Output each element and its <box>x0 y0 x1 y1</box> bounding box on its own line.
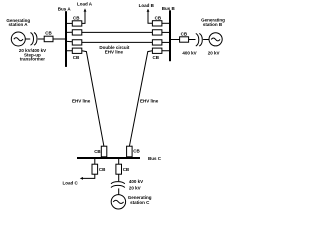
wire CB to Bus A <box>53 38 66 40</box>
svg-text:Bus A: Bus A <box>58 6 72 11</box>
svg-text:CB: CB <box>99 167 106 172</box>
svg-text:station B: station B <box>203 22 223 27</box>
wire Bus B to CB1 <box>162 22 169 24</box>
wire Bus A to CB4 <box>67 50 72 52</box>
circuit breaker CB (generator B) <box>180 37 189 42</box>
svg-text:transformer: transformer <box>20 57 46 62</box>
wire EHV circuit 1 <box>82 31 153 33</box>
svg-text:EHV line: EHV line <box>105 49 124 54</box>
wire CB to transformer T2 <box>189 39 196 41</box>
svg-text:Bus B: Bus B <box>162 6 176 11</box>
wire Bus A to CB3 <box>67 40 72 42</box>
svg-text:EHV line: EHV line <box>72 98 91 103</box>
svg-text:Load B: Load B <box>139 3 155 8</box>
generator G3 station C <box>111 195 125 209</box>
label 20 kV/400 kV step-up transformer <box>19 48 46 62</box>
svg-text:EHV line: EHV line <box>140 98 159 103</box>
svg-text:CB: CB <box>45 31 52 36</box>
svg-text:CB: CB <box>155 15 162 20</box>
wire Bus A to CB1 <box>67 22 72 24</box>
wire EHV line B-C diagonal <box>129 51 152 146</box>
wire Bus B to generator CB <box>171 39 180 41</box>
wire Bus C to CB (generator C) <box>118 159 120 164</box>
wire generator A to transformer T1 <box>25 38 30 40</box>
wire CB to transformer T3 <box>118 174 120 181</box>
wire Bus B to CB2 <box>162 31 169 33</box>
wire Bus B to CB4 <box>162 50 169 52</box>
circuit breaker CB (Bus C upper-left) <box>101 146 107 157</box>
Bus C <box>77 157 140 159</box>
svg-text:CB: CB <box>94 149 101 154</box>
circuit breaker CB (generator C) <box>116 164 122 174</box>
wire transformer T3 to generator C <box>118 188 120 194</box>
circuit breaker CB3 (EHV circuit 2, A side) <box>72 40 82 45</box>
svg-text:CB: CB <box>73 55 80 60</box>
svg-text:20 kV: 20 kV <box>208 50 220 55</box>
svg-text:station A: station A <box>8 22 28 27</box>
svg-text:400 kV: 400 kV <box>182 50 196 55</box>
wire Bus A to CB2 <box>67 31 72 33</box>
svg-text:20 kV: 20 kV <box>129 185 141 190</box>
generator G1 station A <box>11 32 25 46</box>
wire EHV line A-C diagonal <box>82 51 104 146</box>
circuit breaker CB (generator A) <box>44 36 53 42</box>
wire transformer T2 to generator B <box>203 39 209 41</box>
circuit breaker CB (Load C feeder) <box>92 164 98 174</box>
label Generating station C <box>128 195 152 205</box>
wire CB1 to Load B arrow <box>148 11 152 23</box>
svg-text:CB: CB <box>153 55 160 60</box>
svg-text:Load A: Load A <box>77 2 93 7</box>
svg-text:CB: CB <box>73 15 80 20</box>
svg-text:CB: CB <box>181 31 188 36</box>
circuit breaker CB1 (Load A feeder) <box>72 21 82 26</box>
arrow Load A <box>84 8 87 11</box>
label Double circuit EHV line <box>99 45 130 54</box>
wire CB1 to Load A arrow <box>82 11 85 23</box>
circuit breaker CB (Bus C upper-right) <box>127 146 133 157</box>
svg-text:400 kV: 400 kV <box>129 179 143 184</box>
circuit breaker CB1 (Load B feeder) <box>152 21 162 26</box>
svg-text:CB: CB <box>133 149 140 154</box>
transformer T3 <box>111 182 125 188</box>
wire CB to Load C arrow <box>83 174 95 178</box>
svg-text:Load C: Load C <box>63 181 79 186</box>
svg-text:Bus C: Bus C <box>148 156 162 161</box>
circuit breaker CB4 (EHV line to Bus C, A side) <box>72 48 82 53</box>
label Generating station A <box>6 18 30 27</box>
arrow Load C <box>80 177 83 180</box>
wire EHV circuit 2 <box>82 41 153 43</box>
generator G2 station B <box>209 33 222 46</box>
svg-text:station C: station C <box>130 200 150 205</box>
label Generating station B <box>201 17 225 27</box>
Bus A <box>65 11 67 67</box>
svg-text:CB: CB <box>123 167 130 172</box>
transformer T1 <box>31 33 38 46</box>
circuit breaker CB3 (EHV circuit 2, B side) <box>152 40 162 45</box>
wire Bus C to CB (Load C) <box>94 159 96 164</box>
transformer T2 <box>196 33 203 46</box>
wire transformer T1 to CB <box>38 38 44 40</box>
circuit breaker CB2 (EHV circuit 1, A side) <box>72 30 82 35</box>
circuit breaker CB4 (EHV line to Bus C, B side) <box>152 48 162 53</box>
Bus B <box>169 10 171 61</box>
arrow Load B <box>147 9 150 12</box>
circuit breaker CB2 (EHV circuit 1, B side) <box>152 30 162 35</box>
wire Bus B to CB3 <box>162 41 169 43</box>
